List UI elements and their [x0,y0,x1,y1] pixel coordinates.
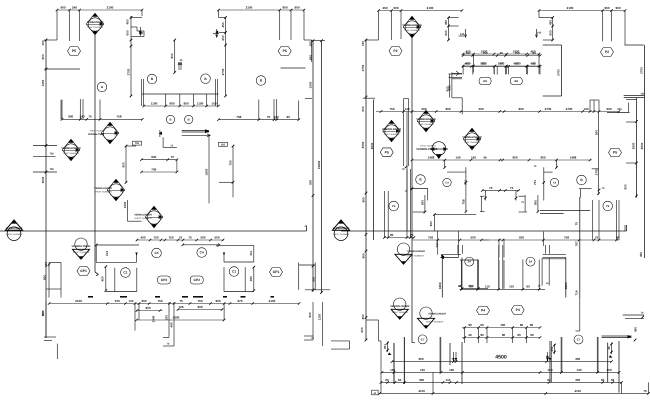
svg-text:900: 900 [145,306,150,310]
svg-text:60: 60 [526,285,530,289]
svg-text:60: 60 [601,378,605,382]
svg-text:440: 440 [170,322,174,327]
svg-text:75: 75 [574,222,578,226]
svg-text:90: 90 [532,51,536,55]
svg-text:500: 500 [470,235,475,239]
svg-text:150: 150 [500,323,505,327]
svg-text:500: 500 [519,235,524,239]
svg-text:750: 750 [168,235,173,239]
svg-text:150: 150 [547,368,552,372]
svg-text:C7: C7 [577,338,581,342]
svg-text:450: 450 [126,19,130,24]
svg-text:140: 140 [583,107,588,111]
svg-text:211: 211 [249,250,253,255]
svg-text:C7: C7 [421,338,425,342]
svg-text:900: 900 [169,101,174,105]
svg-text:2700: 2700 [221,68,225,75]
svg-text:4110: 4110 [574,389,581,393]
svg-text:2700: 2700 [545,107,552,111]
svg-text:1864: 1864 [438,282,442,289]
svg-text:3600: 3600 [632,142,636,149]
svg-text:758: 758 [428,235,433,239]
svg-text:2A: 2A [529,260,533,264]
svg-text:758: 758 [236,115,241,119]
svg-text:SHEET NUMBER: SHEET NUMBER [333,233,350,236]
svg-text:450: 450 [361,314,365,319]
svg-text:150: 150 [211,101,216,105]
svg-text:75: 75 [188,235,192,239]
svg-text:450: 450 [382,6,387,10]
svg-text:40: 40 [499,51,503,55]
svg-text:900: 900 [68,115,73,119]
svg-text:GP1: GP1 [80,269,87,273]
svg-text:450: 450 [361,253,365,258]
svg-text:C4: C4 [200,251,204,255]
svg-text:147: 147 [465,51,470,55]
svg-text:600: 600 [361,106,365,111]
svg-text:90: 90 [287,115,291,119]
svg-text:900: 900 [308,312,312,317]
svg-text:150: 150 [449,368,454,372]
svg-text:126: 126 [178,305,183,309]
svg-text:110: 110 [446,378,451,382]
svg-text:600: 600 [393,6,398,10]
svg-text:900: 900 [43,275,47,280]
svg-text:SHEET NUMBER: SHEET NUMBER [384,133,400,136]
svg-text:450: 450 [101,276,105,281]
svg-text:75: 75 [179,235,183,239]
svg-text:75: 75 [489,186,493,190]
svg-text:C4: C4 [553,182,557,185]
svg-text:900: 900 [480,62,485,66]
svg-text:751: 751 [533,180,537,185]
svg-text:350: 350 [418,357,423,361]
svg-text:GP2: GP2 [194,278,201,282]
svg-text:350: 350 [575,357,580,361]
svg-text:GP1: GP1 [273,270,280,274]
svg-text:VERWALINGER: VERWALINGER [402,24,421,27]
svg-text:150: 150 [641,93,646,96]
svg-text:2100: 2100 [75,299,82,303]
svg-text:350: 350 [419,378,424,382]
svg-text:975: 975 [115,299,120,303]
svg-text:P5: P5 [613,151,617,155]
svg-text:SHEET NUMBER: SHEET NUMBER [6,233,23,236]
svg-text:500: 500 [200,235,205,239]
svg-text:767: 767 [574,241,578,246]
svg-text:VERWALINGER: VERWALINGER [382,128,401,131]
svg-text:3600: 3600 [370,142,374,149]
svg-text:VERBLINDER: VERBLINDER [333,227,350,230]
svg-text:900: 900 [595,130,599,135]
svg-text:900: 900 [151,155,156,159]
svg-text:500: 500 [214,235,219,239]
svg-text:140: 140 [471,155,476,159]
svg-text:900: 900 [429,221,433,226]
svg-text:225: 225 [221,144,226,147]
svg-text:P4: P4 [516,308,520,312]
svg-text:2700: 2700 [127,68,131,75]
svg-text:C1: C1 [232,270,236,274]
svg-text:500: 500 [478,107,483,111]
svg-text:40: 40 [499,62,503,66]
svg-text:900: 900 [311,276,315,281]
svg-text:4110: 4110 [418,389,425,393]
svg-text:VERWALTNERS: VERWALTNERS [416,147,437,151]
svg-text:2540: 2540 [152,315,156,322]
svg-text:VERBLINDER: VERBLINDER [6,227,23,230]
svg-text:C4: C4 [445,182,449,185]
svg-text:SHEET NUMBER: SHEET NUMBER [404,29,420,32]
svg-text:60: 60 [398,378,402,382]
svg-text:450: 450 [444,20,448,25]
svg-text:450: 450 [639,252,643,257]
svg-text:VERWALINGER: VERWALINGER [407,250,425,253]
svg-text:900: 900 [309,180,313,185]
svg-text:40: 40 [468,333,472,337]
svg-text:3600: 3600 [41,176,45,183]
svg-text:P6: P6 [392,205,396,208]
svg-text:600: 600 [360,327,364,332]
svg-text:400: 400 [140,235,145,239]
svg-text:150: 150 [44,262,48,267]
svg-text:900: 900 [604,6,609,10]
svg-text:900: 900 [60,5,65,9]
svg-text:VERWALINGER: VERWALINGER [416,118,435,121]
svg-text:900: 900 [197,305,202,309]
svg-text:P6: P6 [606,205,610,208]
svg-text:150: 150 [390,368,395,372]
svg-text:90: 90 [616,235,620,239]
svg-text:2700: 2700 [361,64,365,71]
svg-text:90: 90 [468,323,472,327]
svg-text:2700: 2700 [595,168,599,175]
svg-text:900: 900 [122,162,126,167]
svg-text:900: 900 [183,101,188,105]
svg-text:600: 600 [468,284,473,288]
svg-text:P2: P2 [605,50,609,54]
svg-text:75: 75 [171,155,175,159]
svg-text:90: 90 [530,333,534,337]
svg-text:900: 900 [534,200,538,205]
svg-text:900: 900 [215,299,220,303]
svg-text:SHEET NUMBER: SHEET NUMBER [134,217,152,220]
svg-text:790: 790 [151,167,156,171]
svg-text:350: 350 [575,378,580,382]
svg-text:600: 600 [444,30,448,35]
svg-text:450: 450 [548,20,552,25]
svg-text:45: 45 [607,346,611,350]
svg-text:75: 75 [510,186,514,190]
svg-text:VERBLINDER: VERBLINDER [87,21,104,24]
svg-text:VERWALINGER: VERWALINGER [61,147,80,150]
svg-text:SHEET NUMBER: SHEET NUMBER [87,26,103,29]
svg-text:SHEET NUMBER: SHEET NUMBER [464,141,480,144]
svg-text:45: 45 [483,155,487,159]
svg-text:900: 900 [41,311,45,316]
svg-text:714: 714 [574,290,578,295]
svg-text:240: 240 [274,115,279,119]
svg-text:2100: 2100 [427,6,434,10]
svg-text:450: 450 [249,276,253,281]
svg-text:GP2: GP2 [161,278,168,282]
svg-text:750: 750 [389,107,394,111]
svg-text:750: 750 [514,51,519,55]
svg-text:750: 750 [228,160,232,165]
svg-text:90: 90 [502,333,506,337]
svg-text:2100: 2100 [246,5,253,9]
svg-text:60: 60 [611,378,615,382]
svg-text:240: 240 [72,5,77,9]
svg-text:P5: P5 [283,49,287,53]
svg-text:140: 140 [455,155,460,159]
svg-text:600: 600 [515,62,520,66]
svg-text:750: 750 [197,299,202,303]
svg-text:C1: C1 [123,271,127,275]
svg-text:1500: 1500 [123,201,127,208]
svg-text:450: 450 [221,22,225,27]
svg-text:758: 758 [461,199,465,204]
svg-text:900: 900 [41,54,45,59]
svg-text:500: 500 [606,107,611,111]
svg-text:740: 740 [576,368,581,372]
svg-text:600: 600 [448,85,452,90]
svg-text:110: 110 [129,299,134,303]
svg-text:B: B [169,118,171,122]
svg-text:VERWALINGER: VERWALINGER [428,313,446,316]
svg-text:60: 60 [547,378,551,382]
svg-text:75: 75 [643,389,647,393]
svg-text:900: 900 [170,53,174,58]
svg-text:40: 40 [458,284,462,288]
svg-text:750: 750 [482,51,487,55]
svg-text:750: 750 [157,299,162,303]
svg-text:60: 60 [480,323,484,327]
svg-text:VERWALINGER: VERWALINGER [390,305,409,308]
svg-text:214: 214 [105,251,109,256]
svg-text:P5: P5 [385,150,389,154]
svg-text:1468: 1468 [428,155,435,159]
svg-text:600: 600 [221,35,225,40]
svg-text:SHEET NUMBER: SHEET NUMBER [73,251,90,254]
svg-text:4500: 4500 [495,355,507,361]
svg-text:150: 150 [361,41,365,46]
svg-text:1100: 1100 [151,101,158,105]
svg-text:B: B [188,118,190,122]
svg-text:2700: 2700 [566,107,573,111]
svg-text:SHEET NUMBER: SHEET NUMBER [391,311,408,314]
svg-text:60: 60 [385,378,389,382]
svg-text:900: 900 [420,200,424,205]
svg-text:SHEET NUMBER: SHEET NUMBER [94,191,112,194]
svg-text:VERWALINGER: VERWALINGER [134,214,152,217]
svg-text:SHEET NUMBER: SHEET NUMBER [426,321,444,324]
svg-text:110: 110 [509,285,514,289]
svg-text:1500: 1500 [309,81,313,88]
svg-text:140: 140 [537,32,542,35]
svg-text:451: 451 [550,346,554,351]
svg-text:1468: 1468 [570,155,577,159]
svg-text:75: 75 [179,299,183,303]
svg-text:600: 600 [309,55,313,60]
svg-text:740: 740 [420,368,425,372]
svg-text:450: 450 [464,62,469,66]
svg-text:900: 900 [294,5,299,9]
svg-text:2700: 2700 [640,67,644,74]
svg-text:150: 150 [309,41,313,46]
svg-text:900: 900 [540,155,545,159]
svg-text:900: 900 [445,107,450,111]
svg-text:758: 758 [564,235,569,239]
svg-text:SHEET NUMBER: SHEET NUMBER [418,123,434,126]
svg-text:900: 900 [518,107,523,111]
svg-text:90: 90 [480,333,484,337]
svg-text:75: 75 [595,235,599,239]
svg-text:SHEET NUMBER: SHEET NUMBER [63,152,79,155]
svg-text:600: 600 [548,30,552,35]
svg-text:60: 60 [530,323,534,327]
svg-text:4500: 4500 [361,141,365,148]
svg-text:75: 75 [88,115,92,119]
svg-text:750: 750 [50,168,55,171]
svg-text:451: 451 [383,344,387,349]
svg-text:200: 200 [165,315,169,320]
svg-text:150: 150 [606,368,611,372]
svg-text:750: 750 [153,235,158,239]
svg-text:900: 900 [615,6,620,10]
svg-text:C4: C4 [154,251,158,255]
svg-text:VERWALINGER: VERWALINGER [94,187,112,190]
svg-text:75: 75 [267,115,271,119]
svg-text:1800: 1800 [204,168,208,175]
svg-text:P5: P5 [72,49,76,53]
svg-text:2864: 2864 [564,282,568,289]
svg-text:750: 750 [135,142,140,145]
svg-text:1350: 1350 [41,79,45,86]
svg-text:VERWALINGER: VERWALINGER [462,136,481,139]
svg-text:75: 75 [410,233,414,237]
svg-text:SHEET NUMBER: SHEET NUMBER [406,255,424,258]
svg-text:2700: 2700 [557,69,561,76]
svg-text:751: 751 [463,180,467,185]
svg-text:450: 450 [361,197,365,202]
svg-text:15843: 15843 [317,160,321,169]
svg-text:2100: 2100 [269,299,276,303]
svg-text:2100: 2100 [567,6,574,10]
svg-text:600: 600 [126,30,130,35]
svg-text:900: 900 [512,155,517,159]
svg-text:P4: P4 [481,309,485,313]
svg-text:60: 60 [520,323,524,327]
svg-text:P2: P2 [393,49,397,53]
svg-text:150: 150 [41,40,45,45]
svg-text:1150: 1150 [318,313,322,320]
svg-text:110: 110 [485,285,490,289]
svg-text:140: 140 [460,33,465,36]
svg-text:750: 750 [50,153,55,156]
svg-text:450: 450 [634,327,638,332]
svg-text:60: 60 [517,333,521,337]
svg-text:4500: 4500 [640,142,644,149]
svg-text:1100: 1100 [197,101,204,105]
svg-text:VERWALTNER: VERWALTNER [88,133,105,136]
svg-text:758: 758 [116,115,121,119]
svg-text:40: 40 [532,62,536,66]
svg-text:900: 900 [141,299,146,303]
svg-text:900: 900 [282,5,287,9]
svg-text:VERWALTNING: VERWALTNING [72,245,91,248]
svg-text:900: 900 [624,184,628,189]
svg-text:90: 90 [390,233,394,237]
svg-text:2100: 2100 [107,5,114,9]
svg-text:743: 743 [435,242,439,247]
svg-text:975: 975 [237,299,242,303]
